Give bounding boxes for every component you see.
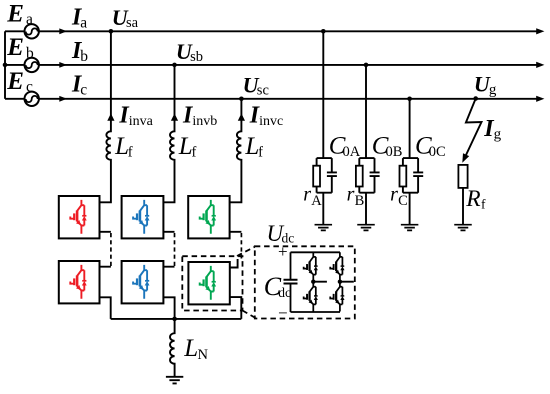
svg-text:invc: invc [259,114,283,129]
svg-text:c: c [80,82,87,99]
svg-text:−: − [278,304,288,323]
svg-text:c: c [26,79,33,96]
svg-text:g: g [489,82,497,98]
svg-text:E: E [6,1,24,28]
svg-text:A: A [311,193,322,209]
svg-text:f: f [192,144,197,160]
svg-text:0B: 0B [386,144,403,160]
svg-text:R: R [465,186,480,212]
svg-text:0A: 0A [343,144,361,160]
svg-text:f: f [481,196,486,211]
svg-text:b: b [26,45,34,62]
svg-text:+: + [278,242,288,261]
svg-text:L: L [244,133,259,160]
svg-text:r: r [390,183,398,205]
svg-text:0C: 0C [429,144,446,160]
svg-text:invb: invb [192,114,217,129]
svg-text:sa: sa [126,15,139,31]
svg-text:f: f [258,144,263,160]
svg-text:a: a [26,11,33,28]
svg-text:r: r [347,183,355,205]
svg-text:sb: sb [190,49,203,65]
svg-text:E: E [6,68,24,95]
svg-text:g: g [494,126,502,142]
svg-text:dc: dc [278,285,291,300]
svg-text:C: C [398,193,408,209]
svg-text:L: L [178,133,193,160]
svg-text:L: L [183,335,198,362]
svg-text:r: r [303,183,311,205]
svg-text:b: b [80,48,88,65]
svg-text:B: B [355,193,365,209]
svg-text:E: E [6,34,24,61]
svg-text:sc: sc [257,83,269,99]
svg-text:N: N [198,347,209,363]
svg-text:f: f [128,144,133,160]
svg-text:L: L [114,133,129,160]
svg-text:a: a [80,14,87,31]
svg-text:inva: inva [129,114,154,129]
